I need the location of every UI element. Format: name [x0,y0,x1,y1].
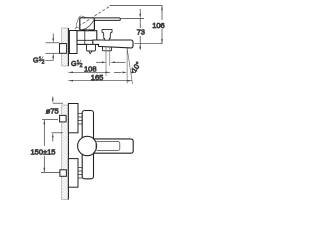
wall surface line (plan view) [67,105,69,200]
outlet nipple point [89,51,92,54]
hand-shower outlet tab under body (side view) [87,44,96,51]
wall hatch (plan view) [62,105,69,200]
inlet pipe square behind wall (side view) [60,44,67,54]
svg-text:73: 73 [137,28,145,37]
circle arc visible over lever [94,139,97,153]
handle cap rest position (side view) [80,18,95,30]
cap underside curve [81,19,95,30]
top union thread ribs [78,114,82,125]
svg-text:106: 106 [152,21,165,30]
body / spout bar (side view) [93,40,133,48]
angle arrow left [114,71,122,73]
svg-text:150±15: 150±15 [31,147,56,156]
svg-text:2: 2 [80,63,83,69]
lever outer outline (plan view) [94,139,134,153]
handle cap raised position (thin outline, side view) [75,15,93,31]
spout bottom reference line [135,43,163,45]
G1/2 label left (side view) [33,56,45,65]
cartridge housing block (side view) [77,31,97,45]
G1/2 label middle (side view) [71,60,83,69]
spout outlet tab (side view) [102,47,111,51]
top inlet pipe square (plan view) [60,115,67,122]
G1/2 inlet dimension arrows (side view) [46,34,60,54]
wall surface line (side view) [67,28,69,66]
bottom escutcheon edge-on (plan view) [68,159,78,188]
svg-text:ø75: ø75 [46,107,59,116]
svg-text:10°: 10° [129,60,143,74]
dimension 108 (horizontal) [68,71,110,73]
mixer body vertical bar (plan view) [82,111,93,179]
wall hatch (side view) [62,28,69,66]
angle arrow right / leader [131,71,135,74]
dimension 165 (horizontal) [68,80,132,82]
leader from G1/2 label [46,56,54,61]
lever inner detail (plan view) [96,141,120,150]
dimension 73 (vertical) [139,9,141,50]
bottom inlet pipe square (plan view) [60,170,67,177]
svg-text:165: 165 [91,73,104,82]
svg-text:2: 2 [42,60,45,66]
dimension o75 (vertical, plan view) [52,97,64,142]
lever tip reference line [121,18,144,20]
cartridge dome circle (plan view) [78,136,97,155]
dimension 106 (vertical) [161,6,163,44]
top escutcheon edge-on (plan view) [68,104,78,133]
G1/2 outlet arrows (side view) [96,61,103,63]
angle reference vertical line [126,48,128,84]
bottom union thread ribs [78,168,82,179]
raised handle top reference line [110,5,163,7]
diverter knob on body (side view) [102,30,112,41]
lever handle raised (dashed, side view) [75,6,110,28]
wall escutcheon plate (side view) [69,31,77,54]
angle tilted line 10deg [127,48,132,84]
outlet pipe extension lines [105,47,107,76]
lever handle solid (side view) [94,18,120,21]
dimension 150+-15 (vertical, plan view) [41,120,60,173]
